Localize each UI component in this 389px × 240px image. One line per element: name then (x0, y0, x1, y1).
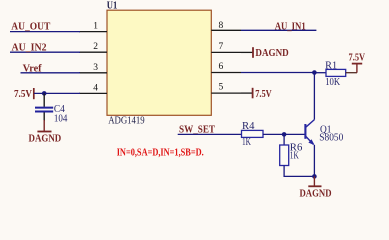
svg-text:S8050: S8050 (319, 133, 343, 144)
net label AU_IN2 (12, 41, 47, 53)
wire R6 bottom to emitter node (284, 166, 314, 177)
wire junction to R1 (314, 72, 326, 74)
resistor R6 (280, 145, 289, 166)
wire SW_SET to R4 (178, 133, 242, 135)
label R4 (242, 121, 255, 132)
power port 7.5V at R1 (349, 53, 366, 73)
svg-text:DAGND: DAGND (300, 187, 332, 199)
svg-text:Vref: Vref (23, 63, 42, 75)
pin 8 (211, 21, 241, 31)
power port DAGND at pin 7 (241, 47, 289, 59)
wire net AU_IN1 (241, 29, 316, 31)
pin 4 (79, 83, 107, 93)
svg-text:AU_OUT: AU_OUT (11, 20, 51, 32)
svg-text:104: 104 (54, 113, 68, 124)
svg-text:R1: R1 (325, 60, 337, 71)
svg-text:DAGND: DAGND (29, 133, 62, 145)
node emitter/R6 (312, 174, 317, 179)
value S8050 (319, 133, 343, 144)
ground DAGND below Q1 (300, 176, 332, 199)
net label Vref (23, 63, 42, 75)
svg-text:ADG1419: ADG1419 (108, 116, 145, 127)
pin 6 (211, 62, 241, 73)
value 1K (290, 150, 300, 161)
wire net AU_OUT (10, 31, 80, 33)
value 10K (325, 77, 341, 88)
svg-text:AU_IN2: AU_IN2 (12, 41, 47, 53)
svg-text:10K: 10K (325, 77, 341, 88)
net label AU_OUT (11, 20, 51, 32)
wire R1 to power (346, 72, 357, 74)
svg-text:6: 6 (219, 62, 224, 72)
wire junction down to Q1 collector (313, 73, 315, 120)
IC U1 ADG1419 body (107, 10, 211, 115)
wire Q1 emitter down (313, 145, 315, 176)
transistor Q1 S8050 (305, 120, 314, 146)
svg-text:1: 1 (93, 22, 98, 32)
value 1K (242, 137, 252, 148)
svg-text:5: 5 (219, 82, 224, 92)
power port 7.5V at pin 5 (241, 88, 272, 100)
pin 7 (211, 42, 241, 53)
annotation IN=0,SA=D,IN=1,SB=D. (117, 148, 204, 159)
svg-text:R4: R4 (242, 121, 255, 132)
svg-text:AU_IN1: AU_IN1 (275, 21, 306, 33)
pin 5 (211, 82, 241, 93)
value ADG1419 (108, 116, 145, 127)
svg-text:7.5V: 7.5V (349, 53, 366, 64)
net label AU_IN1 (275, 21, 306, 33)
resistor R1 (326, 69, 346, 76)
pin 2 (79, 42, 107, 52)
pin 3 (79, 63, 107, 73)
svg-text:1K: 1K (242, 137, 252, 148)
ground DAGND below C4 (29, 120, 62, 145)
wire R4 to junction (263, 133, 284, 135)
svg-text:2: 2 (93, 42, 98, 52)
resistor R4 (242, 130, 264, 137)
wire pin4 to power (34, 92, 80, 94)
label C4 (54, 104, 65, 115)
label R6 (290, 142, 303, 153)
wire net AU_IN2 (10, 51, 80, 53)
value 104 (54, 113, 68, 124)
svg-text:8: 8 (219, 21, 224, 31)
capacitor C4 (35, 93, 53, 121)
svg-text:DAGND: DAGND (255, 47, 288, 59)
label Q1 (320, 125, 332, 136)
wire R6 top lead (283, 134, 285, 145)
wire net Vref (21, 72, 81, 74)
power port 7.5V at pin 4 (14, 88, 34, 100)
net label SW_SET (179, 124, 216, 136)
svg-text:1K: 1K (290, 150, 300, 161)
svg-text:U1: U1 (107, 1, 118, 12)
wire pin 6 to junction (241, 72, 314, 74)
designator U1 (107, 1, 118, 12)
svg-text:7.5V: 7.5V (14, 89, 32, 100)
svg-text:7.5V: 7.5V (255, 89, 272, 100)
node pin6/R1/Q1 (312, 70, 317, 75)
pin 1 (79, 22, 107, 32)
node R4/R6/Q1 base (282, 132, 287, 137)
label R1 (325, 60, 337, 71)
svg-text:3: 3 (93, 63, 98, 73)
wire junction to Q1 base (284, 133, 305, 135)
svg-text:7: 7 (219, 42, 224, 52)
svg-text:SW_SET: SW_SET (179, 124, 216, 136)
svg-text:IN=0,SA=D,IN=1,SB=D.: IN=0,SA=D,IN=1,SB=D. (117, 148, 204, 159)
svg-text:4: 4 (93, 83, 98, 93)
junction node pin4/C4 (42, 91, 47, 96)
